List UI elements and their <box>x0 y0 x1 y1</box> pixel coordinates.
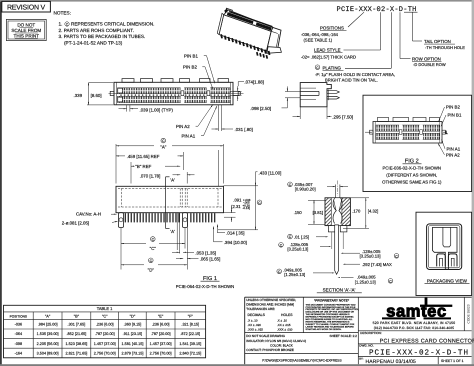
dim .031 [.80] <box>218 105 220 131</box>
packaged connector leg right <box>448 254 457 267</box>
svg-text:[2.31: [2.31 <box>231 204 241 209</box>
svg-text:PIN B2: PIN B2 <box>446 104 460 109</box>
svg-text:BRIGHT ACID TIN ON TAIL.: BRIGHT ACID TIN ON TAIL. <box>325 77 378 82</box>
FIG 2 contact bands <box>376 125 440 131</box>
svg-text:-164: -164 <box>15 351 23 355</box>
svg-text:ROW OPTION: ROW OPTION <box>412 56 441 61</box>
svg-text:[0.90±0.20]: [0.90±0.20] <box>295 187 316 192</box>
svg-text:.X ± .10: .X ± .10 <box>248 318 258 322</box>
ext line right inner <box>217 150 219 186</box>
section pin tail <box>335 225 339 274</box>
packaged connector leg left <box>437 254 446 267</box>
svg-text:.852 [21.65]: .852 [21.65] <box>66 332 86 336</box>
svg-text:.295 [7.50]: .295 [7.50] <box>332 115 353 120</box>
svg-text:.984 [25.00]: .984 [25.00] <box>38 323 58 327</box>
iso right foot <box>267 47 282 54</box>
iso slot dark <box>227 12 272 30</box>
svg-text:1.541 [39.15]: 1.541 [39.15] <box>179 342 201 346</box>
leader X to plating <box>390 12 392 68</box>
FIG 2 end pins <box>370 130 373 134</box>
svg-text:THIS PRINT: THIS PRINT <box>14 33 40 38</box>
svg-text:.301 [7.65]: .301 [7.65] <box>68 323 86 327</box>
dwg no row <box>358 343 471 345</box>
svg-text:PIN A1: PIN A1 <box>447 146 461 151</box>
leader underline TH <box>404 11 418 13</box>
svg-text:TAIL OPTION: TAIL OPTION <box>424 39 451 44</box>
svg-text:.150: .150 <box>294 210 303 215</box>
svg-text:.339: .339 <box>74 93 83 98</box>
svg-text:2.840 [72.15]: 2.840 [72.15] <box>179 351 201 355</box>
contact tip above body <box>334 185 336 198</box>
svg-text:NOTES:: NOTES: <box>54 11 71 16</box>
svg-text:.039 [1.00] (TYP): .039 [1.00] (TYP) <box>140 107 174 112</box>
FIG 2 centerline <box>365 131 372 133</box>
FIG 1 body <box>116 186 224 212</box>
contact bowtie <box>333 198 336 224</box>
dim .070 [1.78] <box>186 172 188 184</box>
svg-text:.459 [11.65] REF: .459 [11.65] REF <box>127 154 160 159</box>
svg-text:.321 [8.15]: .321 [8.15] <box>181 323 199 327</box>
svg-text:POSITIONS: POSITIONS <box>320 26 344 31</box>
svg-text:2.879 [73.15]: 2.879 [73.15] <box>121 351 143 355</box>
samtec logo overbar <box>420 305 452 307</box>
svg-text:.01 [.25]: .01 [.25] <box>294 234 309 239</box>
svg-text:.911 [23.15]: .911 [23.15] <box>123 332 143 336</box>
top view right end pin <box>233 91 238 95</box>
svg-text:DWG. NO.: DWG. NO. <box>359 344 373 348</box>
dim .039 [1.00] (TYP) <box>126 105 128 111</box>
svg-text:.236 [6.00]: .236 [6.00] <box>96 323 114 327</box>
svg-text:PIN A2: PIN A2 <box>446 152 460 157</box>
svg-text:.091: .091 <box>233 198 242 203</box>
dim D <box>121 264 144 266</box>
dim .049 left <box>277 269 282 274</box>
svg-text:2. PARTS ARE ROHS COMPLIANT.: 2. PARTS ARE ROHS COMPLIANT. <box>59 28 134 33</box>
svg-text:(SEE TABLE 1): (SEE TABLE 1) <box>304 38 333 43</box>
svg-text:(812) 944-6733 P.O. BOX 1147: (812) 944-6733 P.O. BOX 1147 FAX: 810-34… <box>374 326 455 330</box>
iso top face <box>224 10 273 31</box>
callout plating <box>315 65 320 70</box>
svg-text:BY:: BY: <box>359 358 363 361</box>
sheet border right <box>472 0 474 366</box>
top view key gaps <box>181 87 185 104</box>
FIG 1 dashed interior <box>121 188 123 207</box>
svg-text:.031 [.80]: .031 [.80] <box>235 127 253 132</box>
svg-text:"C": "C" <box>150 246 157 251</box>
do-not-scale box <box>6 19 46 40</box>
description row <box>358 330 471 332</box>
svg-text:"D": "D" <box>148 268 155 273</box>
svg-text:TOLERANCES ARE:: TOLERANCES ARE: <box>246 307 275 311</box>
svg-text:TABLE 1: TABLE 1 <box>97 306 113 311</box>
leader TH to tail option <box>412 12 414 41</box>
svg-text:'A': 'A' <box>170 229 175 234</box>
svg-text:[1.25±0.13]: [1.25±0.13] <box>355 279 376 284</box>
dim B REF <box>130 162 132 184</box>
svg-text:.394 [10.00]: .394 [10.00] <box>224 240 247 245</box>
svg-text:UNLESS OTHERWISE SPECIFIED,: UNLESS OTHERWISE SPECIFIED, <box>246 298 296 302</box>
dim .170 [4.32] <box>351 197 369 199</box>
svg-text:1.535 [39.00]: 1.535 [39.00] <box>37 332 59 336</box>
svg-text:HOLES: HOLES <box>281 313 293 317</box>
svg-text:1.457 [37.00]: 1.457 [37.00] <box>94 342 116 346</box>
svg-text:.872 [22.15]: .872 [22.15] <box>180 332 200 336</box>
svg-text:REPRESENTS CRITICAL DIMENSION.: REPRESENTS CRITICAL DIMENSION. <box>71 22 154 27</box>
top view center diamond row <box>120 94 230 96</box>
FIG 2 connector body <box>373 122 442 144</box>
title block frame <box>245 296 472 298</box>
svg-text:PIN A1: PIN A1 <box>182 134 196 139</box>
svg-text:CONTACT: PHOSPHOR BRONZE: CONTACT: PHOSPHOR BRONZE <box>246 348 294 352</box>
svg-text:*PROPRIETARY NOTE*: *PROPRIETARY NOTE* <box>314 299 350 303</box>
dim .074[1.88] top-view right pin <box>230 90 242 92</box>
FIG 1 pin comb <box>125 213 214 222</box>
svg-text:(PT-1-24-01-52 AND TP-13): (PT-1-24-01-52 AND TP-13) <box>64 40 123 45</box>
packaged connector silhouette <box>433 227 458 269</box>
leader 02 to lead style <box>380 12 382 50</box>
svg-text:"B" REF: "B" REF <box>135 164 151 169</box>
svg-text:[1.25±0.13]: [1.25±0.13] <box>284 272 305 277</box>
dim A overall <box>115 144 117 184</box>
FIG 2 box <box>363 95 472 191</box>
svg-text:520 PARK EAST BLVD. NEW ALBANY: 520 PARK EAST BLVD. NEW ALBANY, IN 47150 <box>373 321 456 325</box>
svg-text:SCALE FROM: SCALE FROM <box>11 28 41 33</box>
divider under samtec row (left) <box>245 332 359 334</box>
dim .053 [1.35] <box>172 251 180 253</box>
svg-text:PACKAGING VIEW: PACKAGING VIEW <box>427 279 468 284</box>
svg-text:.074[1.88]: .074[1.88] <box>244 79 264 84</box>
packaging view box <box>416 212 472 295</box>
centerline <box>337 181 339 196</box>
svg-text:.053 [1.35]: .053 [1.35] <box>195 250 216 255</box>
section cavity <box>331 198 342 226</box>
dim .065 [1.65] <box>176 258 183 260</box>
svg-text:.787 [20.00]: .787 [20.00] <box>151 332 171 336</box>
svg-text:-D DOUBLE ROW: -D DOUBLE ROW <box>413 62 446 67</box>
svg-text:INSULATOR: NYLON 6/6 (94V-0) U: INSULATOR: NYLON 6/6 (94V-0) UL94V-0) <box>246 339 306 343</box>
svg-text:1.457 [37.00]: 1.457 [37.00] <box>150 342 172 346</box>
svg-text:.360 [9.15]: .360 [9.15] <box>124 323 142 327</box>
dim C <box>121 243 146 245</box>
svg-text:"C": "C" <box>102 314 108 319</box>
svg-text:CODE 55023: CODE 55023 <box>467 304 471 323</box>
top view contact bands <box>118 88 231 94</box>
samtec logo underbars <box>382 317 416 319</box>
svg-text:'A': 'A' <box>170 177 175 182</box>
svg-text:-0.13]: -0.13] <box>243 206 251 210</box>
svg-text:SHEET SCALE: 1:2: SHEET SCALE: 1:2 <box>330 334 358 338</box>
svg-text:-098: -098 <box>15 342 23 346</box>
dim .433 [11.00] <box>224 185 259 187</box>
leader D to row option <box>399 12 401 58</box>
iso right end wall <box>267 27 282 51</box>
svg-text:.XX ± .015: .XX ± .015 <box>277 323 291 327</box>
svg-text:.XXX ± .015: .XXX ± .015 <box>248 328 264 332</box>
section A-A body <box>325 198 350 226</box>
dim .295 [7.50] <box>299 107 301 119</box>
svg-text:DIMENSIONS ARE: INCHES [MM]: DIMENSIONS ARE: INCHES [MM] <box>246 303 294 307</box>
svg-text:SHEET 1 OF 1: SHEET 1 OF 1 <box>441 359 464 363</box>
svg-text:"F": "F" <box>188 314 194 319</box>
svg-text:LEAD STYLE: LEAD STYLE <box>314 48 341 53</box>
svg-text:"E": "E" <box>158 314 164 319</box>
dim .01 [.25] <box>288 234 293 239</box>
svg-text:"A": "A" <box>160 144 166 149</box>
svg-text:3.504 [89.00]: 3.504 [89.00] <box>37 351 59 355</box>
dim .150 [3.81] <box>308 199 325 201</box>
svg-text:[8.60]: [8.60] <box>91 93 102 98</box>
svg-text:SECTION 'A'-'A': SECTION 'A'-'A' <box>323 288 356 293</box>
svg-text:POSITIONS: POSITIONS <box>10 315 27 319</box>
revision box <box>2 1 51 12</box>
side view body <box>300 83 331 107</box>
FIG 1 left peg with hole <box>119 213 124 228</box>
svg-text:-02= .062[1.57] THICK CARD: -02= .062[1.57] THICK CARD <box>301 55 356 60</box>
svg-text:STARTING ANY WORK OR DESIGN.: STARTING ANY WORK OR DESIGN. <box>306 328 342 331</box>
sheet border left <box>0 0 2 366</box>
svg-text:[3.25±0.13]: [3.25±0.13] <box>287 247 308 252</box>
side view tails <box>327 91 339 94</box>
svg-text:PLATING: PLATING <box>323 66 342 71</box>
svg-text:-036,-064,-098,-164: -036,-064,-098,-164 <box>301 32 339 37</box>
divider proprietary/samtec <box>357 297 359 364</box>
dim .339 [8.60] <box>89 81 113 83</box>
svg-text:.236 [6.00]: .236 [6.00] <box>152 323 170 327</box>
svg-text:.787 [20.00]: .787 [20.00] <box>95 332 115 336</box>
svg-text:PCIE-XXX-02-X-D-TH: PCIE-XXX-02-X-D-TH <box>337 6 417 14</box>
svg-text:DESCRIPTION:: DESCRIPTION: <box>360 331 382 335</box>
svg-text:1.523 [38.65]: 1.523 [38.65] <box>65 342 87 346</box>
svg-text:DECIMALS: DECIMALS <box>248 313 266 317</box>
packaging tube outer <box>427 224 462 270</box>
svg-text:.170: .170 <box>352 209 361 214</box>
FIG 1 section line A-A <box>165 177 167 229</box>
svg-text:OTHERWISE SAME AS FIG 1): OTHERWISE SAME AS FIG 1) <box>382 180 442 185</box>
svg-text:.XX ± .020: .XX ± .020 <box>248 323 262 327</box>
svg-text:DO NOT SCALE DRAWING: DO NOT SCALE DRAWING <box>246 334 285 338</box>
svg-text:PIN B1: PIN B1 <box>184 53 198 58</box>
path row <box>245 353 359 355</box>
dim .091 tol <box>224 212 236 214</box>
svg-text:2-ø.081 [2.05]: 2-ø.081 [2.05] <box>62 220 89 225</box>
svg-text:1.: 1. <box>59 22 63 27</box>
svg-text:2.756 [70.00]: 2.756 [70.00] <box>94 351 116 355</box>
top view tabs <box>122 79 134 83</box>
samtec logo t ascender <box>425 298 428 307</box>
svg-text:[4.32]: [4.32] <box>368 209 378 214</box>
top view body <box>114 82 233 105</box>
svg-text:CAV.No: A-H: CAV.No: A-H <box>76 212 101 217</box>
top view left end cavities <box>118 88 123 93</box>
dim .394 [10.00] <box>214 241 223 243</box>
section standoff legs <box>328 226 335 232</box>
svg-text:.014 [.35]: .014 [.35] <box>226 230 244 235</box>
iso top-left tab <box>225 8 232 14</box>
svg-text:PIN B2: PIN B2 <box>183 65 197 70</box>
divider tol/proprietary <box>302 297 304 332</box>
svg-text:"D": "D" <box>130 314 136 319</box>
FIG 1 center peg with hole <box>183 213 188 228</box>
svg-text:DO NOT: DO NOT <box>17 23 35 28</box>
svg-text:-036: -036 <box>15 323 23 327</box>
dim .128 left <box>279 243 284 248</box>
table 1 <box>4 305 206 358</box>
svg-text:2.821 [71.65]: 2.821 [71.65] <box>65 351 87 355</box>
sheet border top <box>0 0 474 2</box>
FIG 1 key dashed verticals <box>179 188 181 207</box>
svg-text:℄: ℄ <box>444 130 448 135</box>
svg-text:(DIFFERENT AS SHOWN,: (DIFFERENT AS SHOWN, <box>386 173 437 178</box>
dim .459 REF <box>182 152 184 170</box>
svg-text:.XXX ± .010: .XXX ± .010 <box>277 328 293 332</box>
svg-text:3. PARTS TO BE PACKAGED IN TUB: 3. PARTS TO BE PACKAGED IN TUBES. <box>59 34 146 39</box>
FIG 2 tabs <box>378 117 389 121</box>
svg-text:2.756 [70.00]: 2.756 [70.00] <box>150 351 172 355</box>
dim .098 [2.50] side view slot <box>285 91 300 93</box>
iso front face <box>219 15 271 51</box>
side view slot <box>300 90 319 92</box>
dim .035 <box>288 182 293 187</box>
section ext lines below legs <box>331 232 333 249</box>
top view left end pin <box>110 91 114 95</box>
svg-text:PCIE-064-02-X-D-TH SHOWN: PCIE-064-02-X-D-TH SHOWN <box>176 284 235 289</box>
svg-text:.065 [1.65]: .065 [1.65] <box>200 257 221 262</box>
svg-text:REVISION V: REVISION V <box>7 5 46 12</box>
iso left end sliver <box>217 13 223 34</box>
svg-text:PIN B1: PIN B1 <box>448 112 462 117</box>
svg-text:-F: 1µ" FLASH GOLD IN CONTACT: -F: 1µ" FLASH GOLD IN CONTACT AREA, <box>315 72 395 77</box>
sheet border bottom <box>0 364 474 366</box>
svg-text:.098 [2.50]: .098 [2.50] <box>250 106 271 111</box>
svg-text:-064: -064 <box>15 332 23 336</box>
ext lines pegs down <box>120 228 122 270</box>
code strip <box>463 297 465 331</box>
svg-text:"B": "B" <box>74 314 80 319</box>
svg-text:2.205 [56.00]: 2.205 [56.00] <box>37 342 59 346</box>
svg-text:PIN A2: PIN A2 <box>176 124 190 129</box>
dim .014 [.35] <box>217 225 219 234</box>
by row <box>358 356 471 358</box>
svg-text:COLOR: BLACK: COLOR: BLACK <box>270 343 294 347</box>
svg-text:"A": "A" <box>45 314 51 319</box>
svg-text:.292 [7.43] MAX: .292 [7.43] MAX <box>362 262 392 267</box>
iso pins far row right <box>256 52 268 59</box>
svg-text:[3.81]: [3.81] <box>313 210 323 215</box>
packaged connector slot <box>443 227 451 247</box>
svg-text:PCIE-036-02-X-D-TH SHOWN: PCIE-036-02-X-D-TH SHOWN <box>383 166 442 171</box>
iso pins front row <box>220 34 270 55</box>
svg-text:1.581 [40.15]: 1.581 [40.15] <box>121 342 143 346</box>
svg-text:.X ± .10: .X ± .10 <box>277 318 287 322</box>
svg-text:HARPENAU 03/14/05: HARPENAU 03/14/05 <box>366 359 416 365</box>
svg-text:-TH THROUGH HOLE: -TH THROUGH HOLE <box>425 45 465 50</box>
leader XXX to positions <box>348 12 364 27</box>
svg-text:F:\DWG\(EXSPROD)\ASSEMBLY\(VC): F:\DWG\(EXSPROD)\ASSEMBLY\(VC)\PC-EXPRES… <box>262 359 342 363</box>
svg-text:.070 [1.78]: .070 [1.78] <box>140 173 161 178</box>
svg-text:.433 [11.00]: .433 [11.00] <box>259 170 282 175</box>
svg-text:[3.25±0.13]: [3.25±0.13] <box>360 254 381 259</box>
